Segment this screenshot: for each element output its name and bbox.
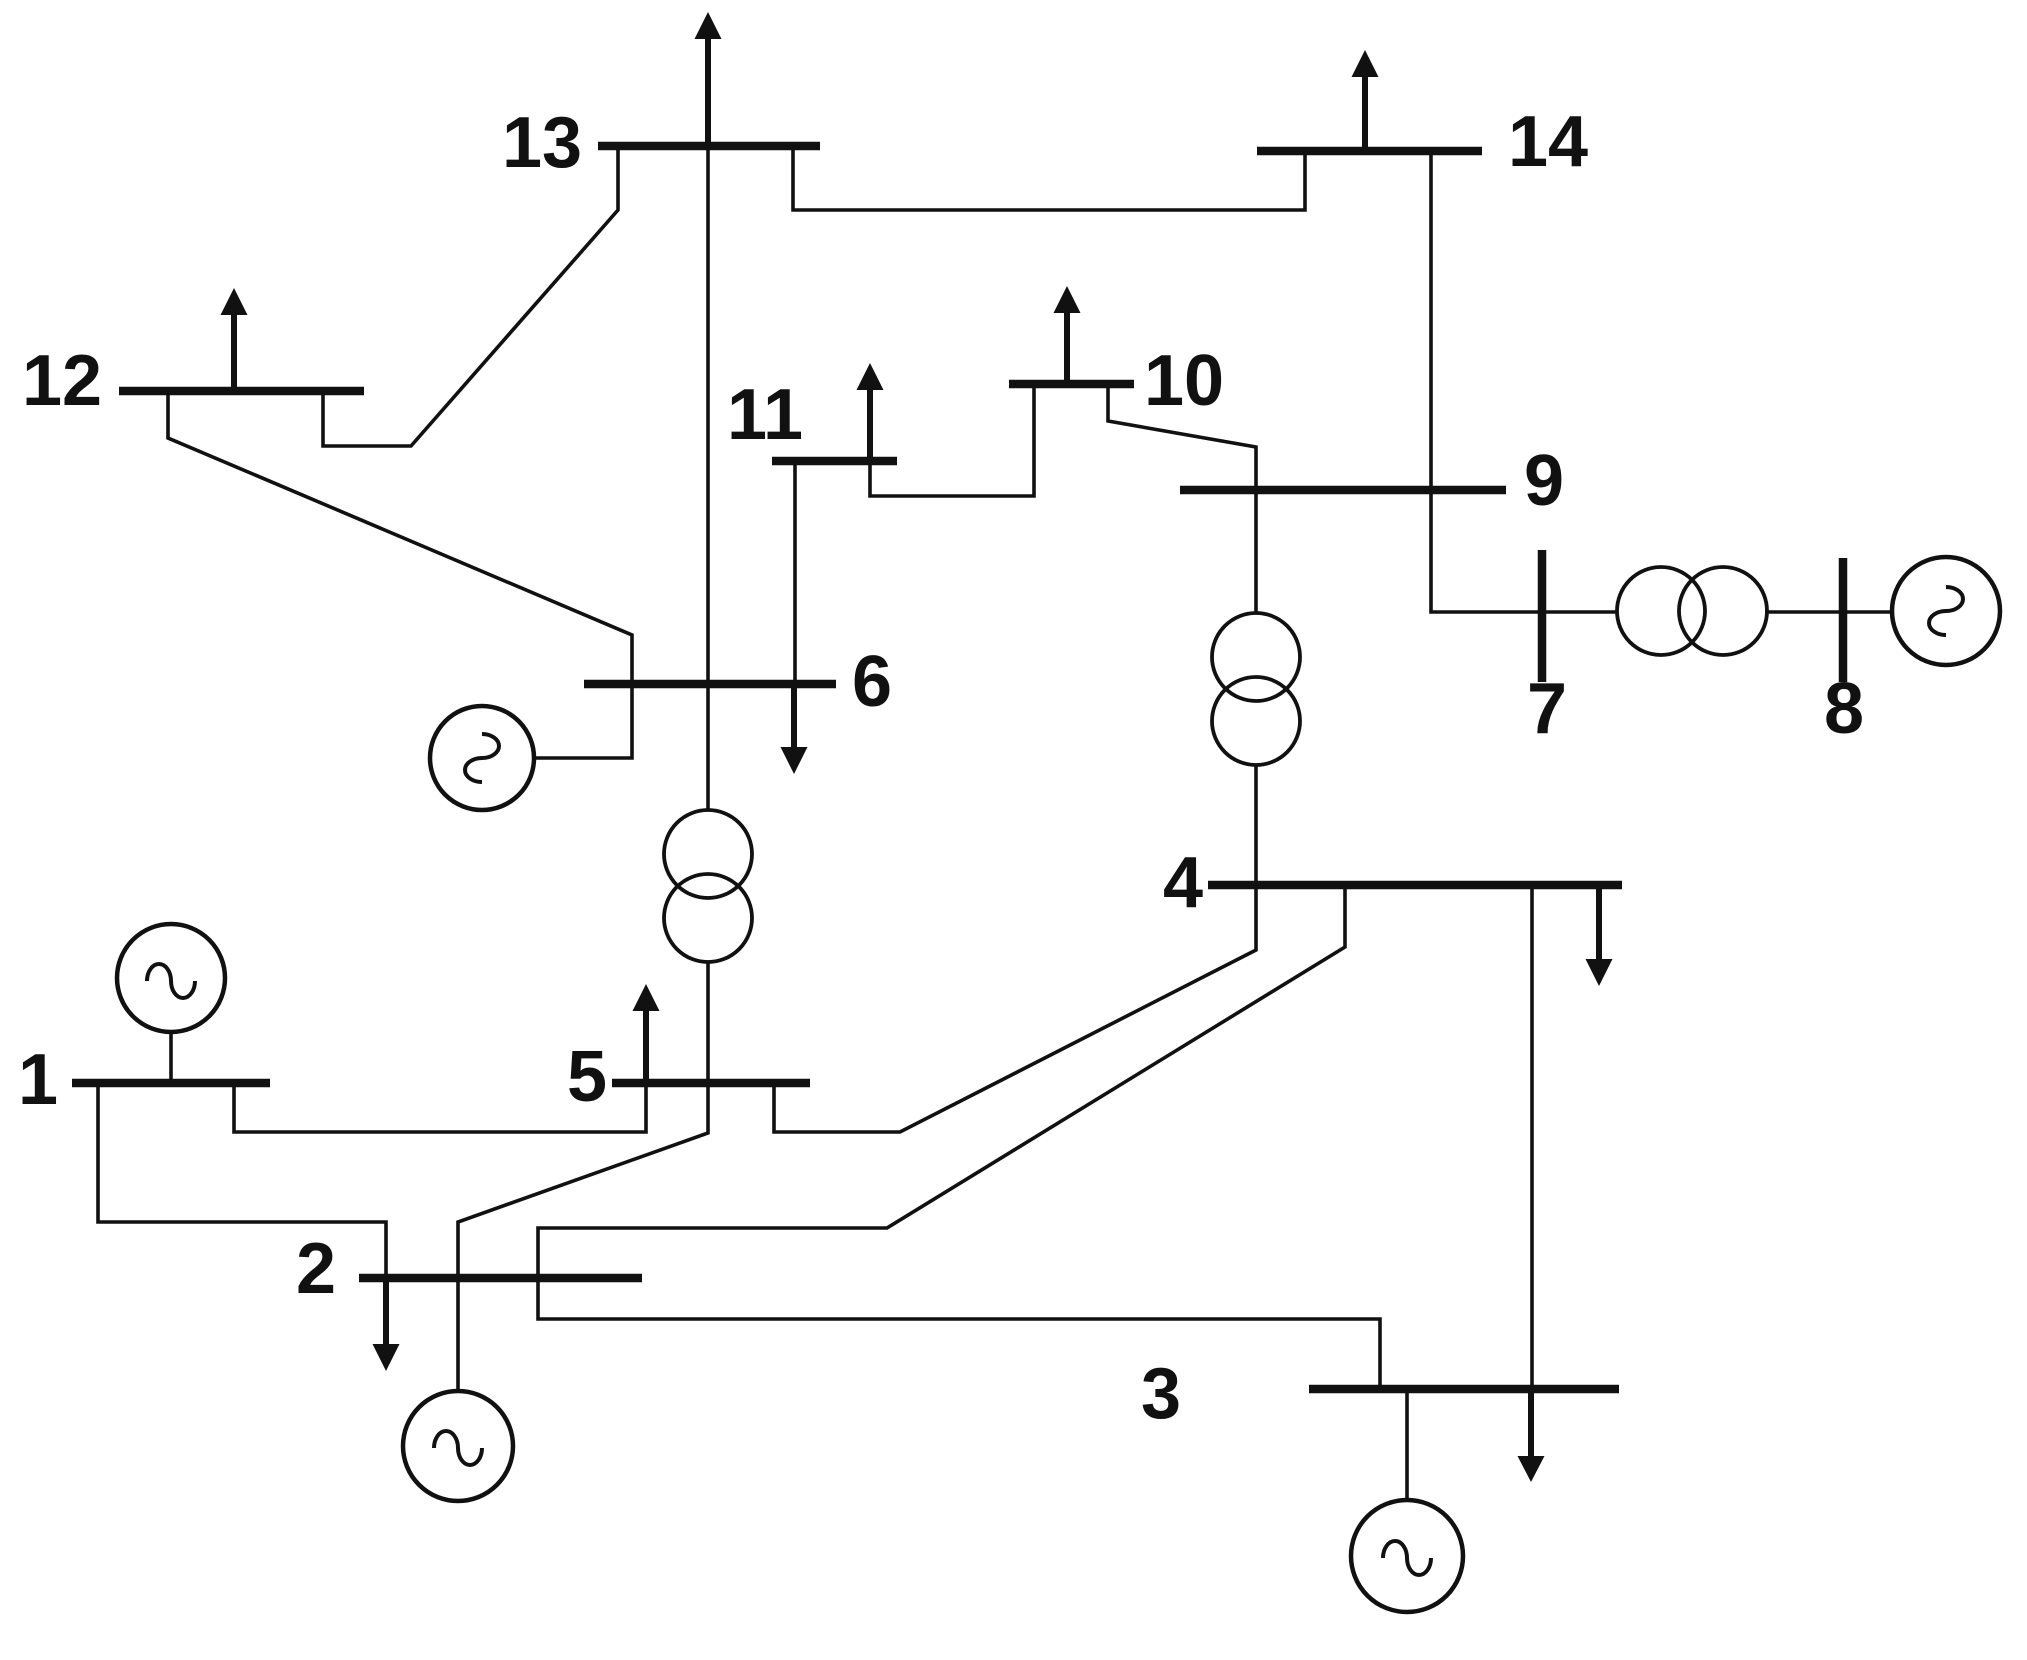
- load arrow bus 3: [1518, 1389, 1545, 1482]
- wire 7-9: [1431, 490, 1538, 612]
- generator G2: [403, 1391, 513, 1501]
- bus 1: [72, 1079, 270, 1088]
- svg-text:5: 5: [567, 1037, 607, 1117]
- bus 13: [598, 142, 820, 151]
- bus 5: [612, 1079, 810, 1088]
- load arrow bus 4: [1586, 889, 1613, 986]
- wire generator G3 lead: [1405, 1389, 1409, 1501]
- wire generator G1 lead: [169, 1031, 173, 1083]
- svg-text:12: 12: [22, 341, 102, 421]
- svg-text:6: 6: [852, 642, 892, 722]
- bus 12: [119, 387, 364, 396]
- bus 2: [359, 1274, 642, 1283]
- wire bus 8 to generator G8: [1843, 610, 1892, 614]
- wire 9 to transformer 4-9: [1254, 490, 1258, 613]
- svg-text:4: 4: [1163, 843, 1203, 923]
- svg-text:13: 13: [502, 103, 582, 183]
- wire transformer 4-9 to bus 4: [1254, 765, 1258, 885]
- wire 6-11: [793, 461, 797, 684]
- wire 2-3: [538, 1278, 1380, 1389]
- svg-text:7: 7: [1527, 669, 1567, 749]
- svg-text:10: 10: [1144, 341, 1224, 421]
- wire 1-2: [98, 1083, 386, 1278]
- bus 14: [1257, 147, 1482, 156]
- load arrow bus 12 (up): [221, 288, 248, 391]
- load arrow bus 11 (up): [857, 363, 884, 461]
- load arrow bus 13 (up): [695, 12, 722, 146]
- transformer T7-8: [1617, 567, 1767, 655]
- wire 13-14: [793, 146, 1305, 210]
- svg-text:1: 1: [18, 1040, 58, 1120]
- transformer T4-9: [1212, 613, 1300, 765]
- load arrow bus 2: [373, 1278, 400, 1371]
- wire 1-5: [234, 1083, 646, 1132]
- load arrow bus 6: [781, 684, 808, 774]
- bus 3: [1309, 1385, 1619, 1394]
- bus 6: [584, 680, 836, 689]
- wire 6-12: [168, 391, 632, 684]
- wire transformer 7-8 to bus 8: [1765, 610, 1843, 614]
- bus 8: [1839, 558, 1848, 682]
- generator G1: [117, 924, 225, 1032]
- svg-text:14: 14: [1508, 102, 1588, 182]
- bus 10: [1009, 380, 1134, 389]
- svg-text:2: 2: [296, 1229, 336, 1309]
- bus 9: [1180, 486, 1506, 495]
- load arrow bus 10 (up): [1054, 286, 1081, 384]
- load arrow bus 14 (up): [1352, 50, 1379, 151]
- generator G6: [430, 706, 534, 810]
- svg-text:11: 11: [727, 375, 803, 455]
- wire 9-14: [1429, 151, 1433, 490]
- wire 3-4: [1530, 885, 1534, 1389]
- wire 2-4: [538, 885, 1345, 1278]
- wire 10-11: [870, 384, 1034, 496]
- wire 12-13: [323, 146, 618, 446]
- load arrow bus 5 (up): [633, 984, 660, 1083]
- bus 7: [1538, 550, 1547, 682]
- wire 6-13 and transformer 5-6 lead: [706, 146, 710, 810]
- svg-text:9: 9: [1524, 441, 1564, 521]
- wire generator G6 lead: [534, 684, 632, 758]
- svg-text:8: 8: [1824, 669, 1864, 749]
- transformer T5-6: [664, 810, 752, 962]
- wire 4-5: [774, 885, 1256, 1132]
- wire 2-5 and generator G2 lead: [458, 1083, 708, 1391]
- bus 4: [1208, 881, 1622, 890]
- generator G8: [1892, 557, 2000, 665]
- bus 11: [772, 457, 897, 466]
- generator G3: [1351, 1500, 1463, 1612]
- wire 7 to transformer 7-8: [1546, 610, 1617, 614]
- wire 9-10: [1108, 384, 1256, 490]
- svg-text:3: 3: [1141, 1354, 1181, 1434]
- wire transformer 5-6 to bus 5: [706, 962, 710, 1083]
